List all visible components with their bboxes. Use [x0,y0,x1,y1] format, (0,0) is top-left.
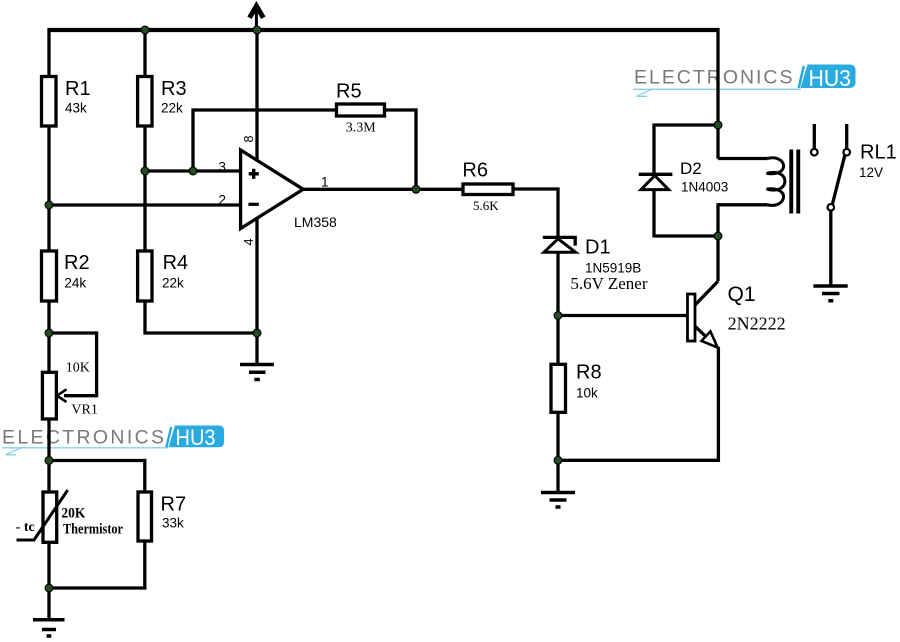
svg-text:R4: R4 [163,252,189,274]
svg-text:HU3: HU3 [809,65,852,91]
svg-text:LM358: LM358 [294,214,337,230]
svg-text:R5: R5 [336,81,362,103]
svg-text:5.6V Zener: 5.6V Zener [570,274,647,293]
svg-text:R2: R2 [64,252,90,274]
svg-text:3.3M: 3.3M [346,120,377,135]
svg-text:8: 8 [242,135,256,142]
svg-text:3: 3 [219,159,227,174]
svg-text:Thermistor: Thermistor [63,521,123,537]
svg-text:HU3: HU3 [176,425,216,450]
svg-text:R7: R7 [161,494,187,516]
svg-text:R6: R6 [462,160,488,182]
svg-text:R3: R3 [161,78,187,100]
svg-text:D1: D1 [585,236,611,258]
svg-text:43k: 43k [65,100,87,115]
svg-text:D2: D2 [680,159,702,178]
svg-text:5.6K: 5.6K [473,198,499,213]
svg-text:10k: 10k [576,385,598,400]
svg-text:4: 4 [242,238,256,245]
svg-text:24k: 24k [64,276,86,291]
svg-text:1: 1 [321,175,329,190]
svg-text:R1: R1 [65,78,91,100]
svg-text:10K: 10K [66,360,90,375]
svg-text:12V: 12V [859,165,883,180]
svg-text:RL1: RL1 [860,141,897,163]
svg-text:ELECTRONICS: ELECTRONICS [2,426,164,448]
svg-text:1N4003: 1N4003 [681,180,728,195]
svg-text:22k: 22k [162,276,184,291]
svg-text:22k: 22k [161,100,183,115]
svg-text:2N2222: 2N2222 [728,313,786,333]
svg-text:33k: 33k [162,515,184,530]
svg-text:ELECTRONICS: ELECTRONICS [634,67,793,89]
svg-text:2: 2 [219,192,227,207]
svg-text:Q1: Q1 [728,283,756,306]
svg-text:VR1: VR1 [71,402,97,417]
svg-text:- tc: - tc [16,520,35,535]
svg-text:R8: R8 [576,361,602,383]
svg-text:20K: 20K [61,506,85,522]
